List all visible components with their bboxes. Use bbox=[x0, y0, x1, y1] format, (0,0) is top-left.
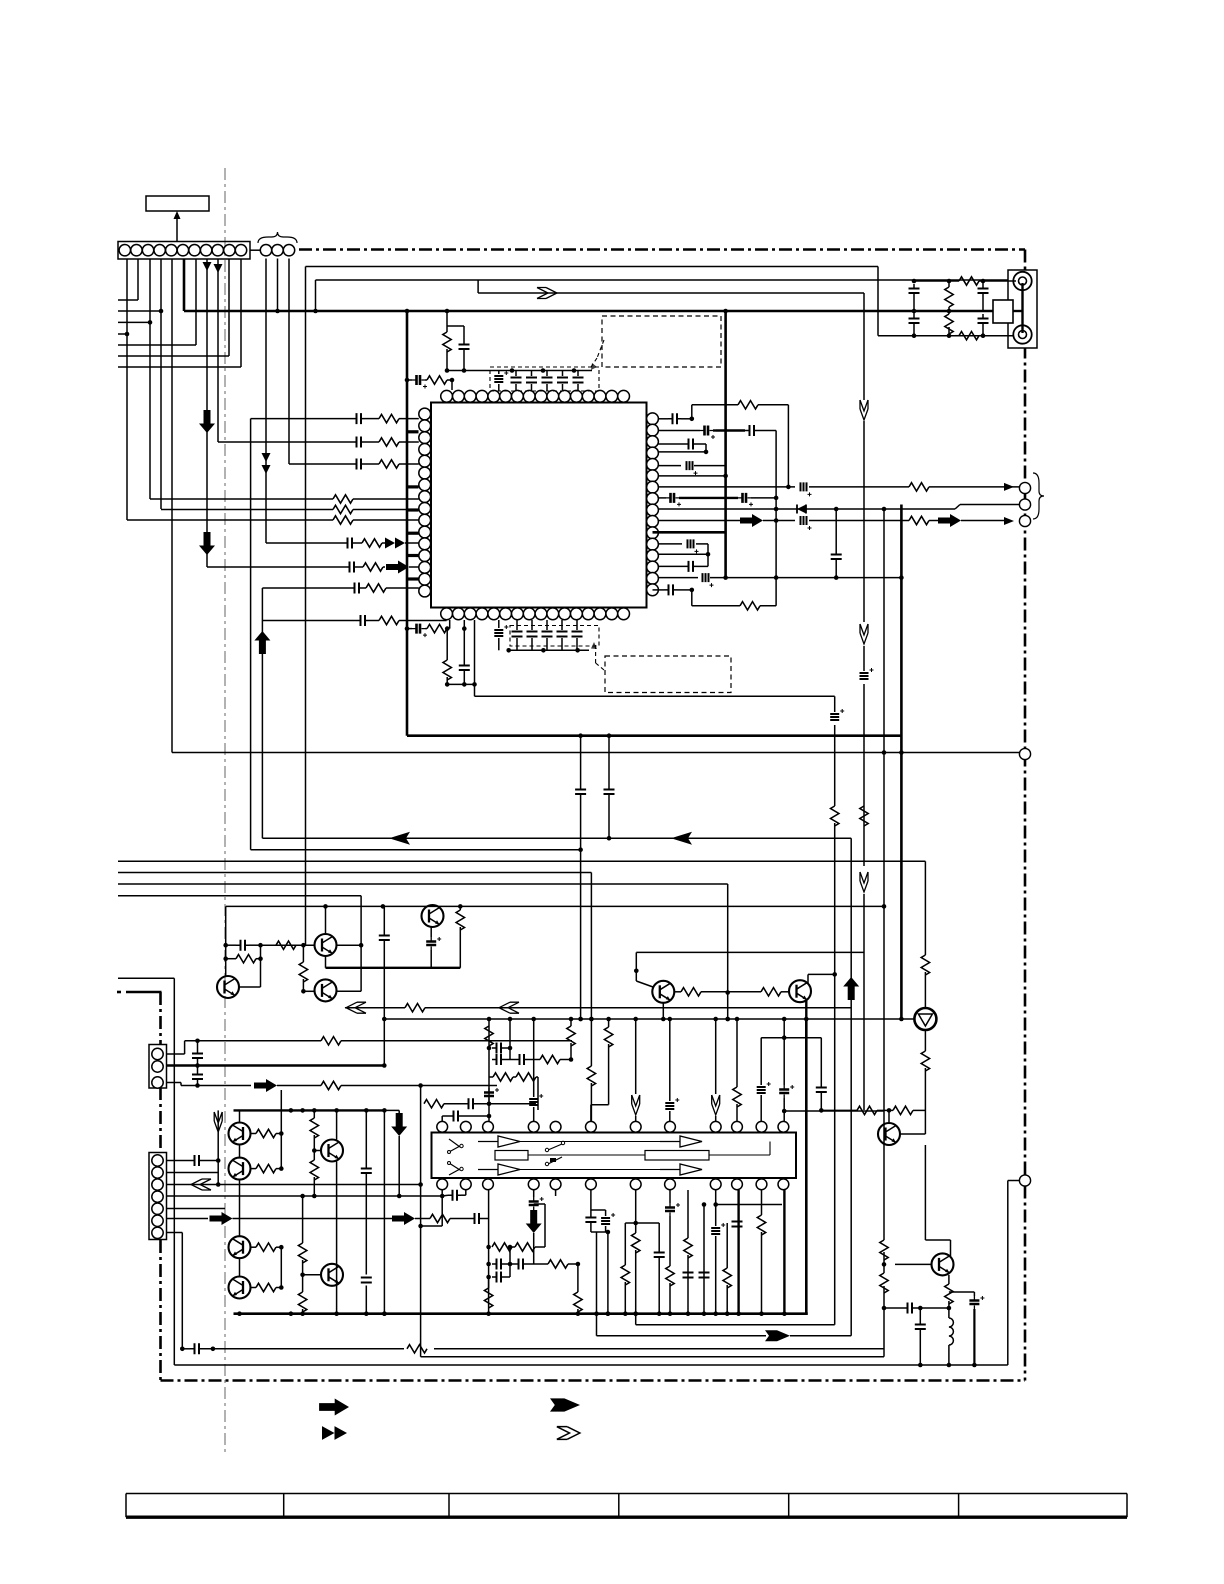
wire y293 with chevron bbox=[478, 280, 864, 299]
resistor R242 bbox=[489, 1073, 516, 1081]
transistor Q210 bbox=[229, 1123, 251, 1145]
resistor R252 bbox=[548, 1260, 580, 1268]
CN201 pin1 wire bbox=[167, 1039, 573, 1055]
wire x607 down bbox=[606, 1232, 611, 1316]
CN201 pin2 thick wire y1065 bbox=[167, 1063, 387, 1068]
wire left edge stub y978 bbox=[118, 977, 174, 979]
frame border bottom dash-dot bbox=[161, 1379, 1026, 1382]
resistor R132 bbox=[379, 460, 419, 468]
wire x590 caps C253 C254 bbox=[585, 1190, 610, 1234]
resistor R203 bbox=[955, 280, 959, 282]
transistor Q202 bbox=[315, 906, 337, 956]
wire into jack row1 bbox=[1014, 280, 1017, 282]
capacitor C258 x737 bbox=[732, 1222, 743, 1227]
twin small down arrows bbox=[262, 453, 271, 474]
junction dots rc filter bbox=[912, 279, 917, 284]
dashed outline deco caps bottom bbox=[510, 626, 599, 647]
row to left pin10 resistor R135 bbox=[127, 516, 419, 524]
row to left pin16 bbox=[262, 587, 350, 589]
capacitor C231 on x366 bbox=[361, 1278, 372, 1283]
electrolytic C272 bbox=[949, 1292, 985, 1365]
chevron down arrow b bbox=[860, 624, 868, 644]
capacitor C124 bbox=[531, 620, 533, 630]
wire y952 bbox=[636, 951, 864, 953]
thick analog bus vertical x725 bbox=[724, 311, 727, 578]
resistor R130 bbox=[379, 414, 419, 422]
wire rail bbox=[447, 683, 474, 685]
capacitor C212 vertical bbox=[379, 906, 390, 1065]
IC2 pin x442 bottom wire bbox=[418, 1190, 442, 1228]
network vertical x821 capacitor C213 bbox=[816, 1038, 827, 1110]
footer table bbox=[126, 1494, 1127, 1518]
border pin circle row2 bbox=[1019, 499, 1030, 510]
network vertical x784 electrolytic C244 bbox=[779, 1038, 884, 1122]
wire x761 resistor R261 bbox=[757, 1190, 765, 1314]
wire x361 bbox=[337, 896, 364, 992]
resistor R251 bbox=[512, 1204, 545, 1251]
capacitor C117 bbox=[577, 371, 579, 377]
hatched cap Z140 bbox=[801, 482, 812, 496]
right row pin16 capacitor C148 bbox=[653, 584, 695, 595]
wire pin3 to wrap line bbox=[475, 620, 835, 696]
wire y1357 bbox=[421, 1356, 884, 1358]
wire y1110 bbox=[819, 1108, 925, 1113]
border pin circle y752 bbox=[1019, 748, 1030, 759]
border pin circle row1 bbox=[1019, 482, 1030, 493]
IC101 left pins bbox=[419, 408, 431, 597]
vertical x580 with capacitor C150 bbox=[575, 736, 586, 1022]
thick wire x784 bbox=[783, 1190, 785, 1314]
right row pin9 wire to mid line bbox=[658, 505, 1019, 512]
decoupling caps above IC101 bbox=[494, 371, 583, 392]
gray section divider dash-dot line bbox=[224, 168, 226, 1455]
capacitor C230 bbox=[361, 1110, 372, 1313]
IC201 internal resistor boxes bbox=[495, 1151, 709, 1161]
right row pin13 wire bbox=[658, 552, 710, 557]
legend sharp arrow bbox=[550, 1398, 580, 1411]
resistor R254 vertical bbox=[574, 1264, 582, 1314]
resistor R137 bbox=[363, 563, 385, 571]
capacitor C220 bbox=[192, 1041, 203, 1068]
wire x884 vertical bbox=[882, 509, 887, 1357]
wire stubs at left page edge bbox=[118, 300, 241, 367]
capacitor C116 bbox=[562, 371, 564, 377]
right row pin15 hatched Z143 bbox=[658, 573, 901, 587]
wire to transistor Q202 bbox=[261, 944, 315, 946]
wire y1365 long bbox=[174, 1363, 1008, 1368]
transistor Q205 bbox=[652, 981, 674, 1022]
row y1104 resistor R247 bbox=[424, 1100, 464, 1108]
resistor R270 below Q220 bbox=[945, 1275, 953, 1318]
wire x737 resistor R246 bbox=[733, 1019, 741, 1121]
Q206 emitter thick stub bbox=[805, 1000, 807, 1019]
resistor R214 vertical bbox=[456, 906, 464, 967]
wire x727 resistor R260 bbox=[726, 1190, 728, 1267]
legend open chevron bbox=[557, 1427, 580, 1440]
resistor R120 bbox=[425, 628, 427, 630]
dashed box label IC101 bottom bbox=[605, 656, 731, 693]
resistor R243 bbox=[516, 1073, 538, 1110]
resistor R215 on y1007 bbox=[405, 1004, 425, 1012]
resistor R223 bbox=[430, 1214, 470, 1222]
capacitor C251 bbox=[510, 1259, 548, 1270]
resistor R220 bbox=[893, 1106, 913, 1114]
capacitor C112 hatched bbox=[498, 371, 500, 375]
vertical wires from 3-pin group bbox=[266, 259, 289, 544]
row to left pin3 bbox=[218, 441, 352, 443]
CN201 pin3 wire with block arrow bbox=[167, 1079, 322, 1092]
right row pin14 capacitor C147 bbox=[658, 554, 708, 572]
inductor L201 bbox=[949, 1318, 954, 1365]
capacitor C122 hatched bbox=[498, 620, 500, 628]
hatched cap Z141 bbox=[801, 516, 812, 530]
brace right of border pins bbox=[1033, 473, 1044, 519]
junction dots on thick bus bbox=[275, 309, 728, 314]
small arrowheads under connector bbox=[203, 262, 223, 273]
resistor R136 bbox=[362, 539, 385, 547]
jack shield link bbox=[993, 283, 1023, 333]
base network capacitor C210 bbox=[223, 940, 262, 951]
wire quad spine bbox=[234, 1110, 240, 1276]
wire x925 chain bbox=[921, 861, 929, 1008]
right row pin4 wire bbox=[658, 450, 708, 455]
resistor R138 bbox=[366, 584, 419, 592]
capacitor C247 bbox=[442, 1190, 466, 1201]
resistor R233 bbox=[251, 1283, 284, 1291]
dashed leader to caps bbox=[591, 340, 604, 370]
right rows wires bbox=[658, 466, 727, 479]
resistor R250 bbox=[492, 1243, 512, 1251]
resistor R232 bbox=[251, 1243, 284, 1251]
junction dots on supply bus bbox=[405, 378, 612, 738]
CN202 pin5 wire bbox=[167, 1208, 226, 1210]
IC101 right pins bbox=[647, 413, 659, 596]
RC filter at jack bbox=[878, 277, 1014, 340]
capacitor C241 bbox=[492, 1043, 512, 1054]
CN202 pin1 capacitor C222 bbox=[167, 1155, 221, 1166]
capacitor C125 bbox=[546, 620, 548, 630]
wire x595 down bbox=[596, 1232, 598, 1336]
right row pin2 electrolytic C141 bbox=[658, 426, 745, 440]
IC201 internal opamp A bbox=[478, 1136, 520, 1147]
legend block arrow bbox=[319, 1399, 349, 1416]
capacitor C271 vertical bbox=[915, 1308, 926, 1365]
resistor R213 bbox=[261, 941, 297, 949]
border pin circle y1180 bbox=[1019, 1175, 1030, 1186]
capacitor C243 bbox=[510, 1054, 540, 1065]
transistor Q206 bbox=[789, 980, 811, 1002]
dashed leader bottom bbox=[591, 642, 604, 670]
arrow from connector to label box bbox=[174, 211, 181, 241]
capacitor C127 bbox=[576, 620, 578, 630]
resistor R212 vertical bbox=[299, 943, 314, 994]
resistor R253 vertical bbox=[484, 1277, 492, 1308]
wire x591 down to IC2 bbox=[587, 873, 595, 1123]
capacitor C201 bbox=[909, 284, 920, 297]
row to left pin5 bbox=[289, 463, 352, 465]
transistor Q213 bbox=[229, 1277, 251, 1299]
resistor R152 bbox=[880, 1240, 888, 1260]
transistor Q211 bbox=[229, 1158, 251, 1180]
big arrow mid bbox=[938, 514, 1004, 527]
wire x715 chain bbox=[711, 1190, 782, 1314]
resistor R211 bbox=[260, 958, 262, 960]
resistor R219 bbox=[857, 1106, 877, 1114]
Q220 collector wire up bbox=[925, 1145, 950, 1256]
cluster under CN pins x488 bbox=[486, 1190, 491, 1314]
arrowhead into border pin row3 bbox=[1004, 517, 1014, 525]
resistor R141 bbox=[909, 483, 929, 491]
thick supply bus left/bottom of IC101 bbox=[407, 311, 901, 736]
IC101 bottom pins bbox=[441, 608, 630, 620]
wire x420 long vertical bbox=[418, 1083, 423, 1357]
connector group of 3 pins bbox=[250, 245, 295, 256]
jack connector box bbox=[1008, 270, 1037, 348]
capacitor C115 bbox=[546, 371, 548, 377]
capacitor C123 bbox=[516, 620, 518, 630]
electrolytic C252 x533 with down arrow bbox=[526, 1190, 544, 1264]
decoupling caps below IC101 bbox=[494, 620, 589, 653]
row to left pin9 resistor R134 bbox=[161, 505, 419, 513]
thick wire x806 down bbox=[805, 1019, 808, 1314]
transistor Q220 bbox=[895, 1253, 954, 1275]
capacitor C131 bbox=[352, 437, 379, 448]
capacitor C110 electrolytic bbox=[407, 379, 412, 381]
wire x281 links bbox=[280, 1090, 282, 1288]
base network resistor R210 bbox=[223, 955, 262, 963]
wire x510 link bbox=[509, 1247, 511, 1277]
capacitor C204 bbox=[978, 314, 989, 327]
capacitor C134 bbox=[345, 562, 363, 573]
resistor R121 bbox=[446, 629, 448, 660]
thick bus from connector pin bbox=[184, 259, 1013, 312]
IC201 bottom pins bbox=[437, 1179, 789, 1190]
thick ground bus y1314 bbox=[234, 1311, 808, 1316]
frame border left dash-dot bbox=[117, 992, 162, 1381]
capacitor C126 bbox=[561, 620, 563, 630]
long wire y838 with left arrows bbox=[262, 832, 851, 845]
capacitor C132 bbox=[352, 459, 379, 470]
wire x625 resistor R255 bbox=[624, 1189, 626, 1191]
CN202 pin4 wire bbox=[167, 1194, 445, 1199]
block arrow into pin14 bbox=[386, 561, 419, 574]
frame border top dash-dot bbox=[299, 248, 1025, 251]
jack terminal bottom bbox=[1013, 325, 1031, 343]
wire x715 chevron down bbox=[712, 1019, 720, 1121]
electrolytic C259 x715 bbox=[715, 1313, 717, 1315]
resistor network block top rail bbox=[761, 1019, 821, 1040]
right row pin1 capacitor C140 bbox=[658, 413, 694, 424]
resistor R218 below B201 bbox=[921, 1030, 929, 1134]
wire x608 resistor R245 bbox=[591, 1019, 613, 1121]
right row pin10 arrow row bbox=[658, 514, 795, 527]
arrowhead into border pin bbox=[1004, 483, 1014, 491]
dashed outline deco caps top bbox=[490, 367, 599, 391]
capacitor C223 bbox=[470, 1213, 489, 1224]
junction dots y752 bbox=[882, 750, 887, 755]
IC101 top pins bbox=[441, 390, 630, 402]
loop resistor R140 bbox=[692, 401, 791, 490]
row to left pin12 bbox=[266, 542, 343, 544]
brace over 3-pin group bbox=[258, 232, 297, 243]
capacitor C121 bbox=[463, 629, 465, 661]
mid transistors column resistors R234 R235 bbox=[310, 1110, 318, 1196]
row y1104 capacitor C245 bbox=[464, 1098, 536, 1109]
big down arrow 1 bbox=[199, 410, 215, 433]
wire x384 bbox=[382, 1110, 387, 1316]
wire x669 hatched Z241 bbox=[665, 1019, 679, 1121]
CN202 pin6 arrow row bbox=[167, 1212, 431, 1225]
right row pin12 hatched Z142 bbox=[658, 539, 708, 554]
wire x635 chevron down bbox=[632, 1019, 640, 1121]
up arrow on wire x262 bbox=[254, 588, 270, 838]
wire x489 bbox=[487, 1019, 492, 1121]
wire x260 down to Q201 bbox=[239, 945, 261, 987]
resistor R216 bbox=[675, 988, 728, 996]
capacitor C255 x659 bbox=[636, 1223, 665, 1314]
wire x510 bbox=[509, 1019, 511, 1060]
resistor R217 bbox=[728, 988, 789, 996]
resistor R262 on y1348 bbox=[407, 1345, 427, 1353]
row to left pin8 resistor R133 bbox=[150, 495, 419, 503]
supply branch below IC101 bbox=[407, 620, 477, 687]
right row pin7 wire bbox=[658, 486, 1019, 488]
wire x305 from top loop bbox=[304, 498, 306, 500]
IC101 ground stub ticks left bbox=[408, 432, 419, 579]
connector CN202 box bbox=[149, 1153, 167, 1240]
diode pair D140 bbox=[797, 505, 806, 514]
wire x1007 up to border pin bbox=[1008, 1181, 1020, 1366]
resistor R230 bbox=[251, 1129, 284, 1137]
wire x836 vertical bbox=[832, 696, 837, 1324]
vertical wires from connector pins bbox=[127, 259, 241, 753]
wire x670 resistor R258 bbox=[665, 1190, 680, 1314]
caps C256 C257 x688 x704 bbox=[687, 1189, 689, 1191]
resistor R221 on y1041 bbox=[321, 1037, 341, 1045]
capacitor C111 bbox=[463, 326, 465, 340]
resistor R153 bbox=[880, 1273, 888, 1293]
right row pin5 hatched C144 bbox=[658, 461, 697, 475]
row to left pin14 bbox=[207, 566, 345, 568]
capacitor C149 vertical bbox=[831, 509, 842, 578]
IC IC101 body bbox=[431, 403, 647, 608]
resistor R110 bbox=[425, 379, 427, 381]
row below-left to bottom pin: capacitor C136 bbox=[262, 615, 379, 626]
supply branch above IC101 bbox=[407, 311, 470, 390]
capacitor C114 bbox=[531, 371, 533, 377]
capacitor C202 bbox=[909, 314, 920, 327]
jack terminal top bbox=[1013, 272, 1031, 290]
transistor Q215 bbox=[303, 1264, 343, 1286]
IC IC201 body bbox=[432, 1133, 797, 1179]
wire Q202 emitter to thick rail bbox=[326, 956, 461, 968]
transistor Q212 bbox=[229, 1236, 251, 1258]
wire x864 long vertical bbox=[863, 293, 865, 1110]
CN202 pin3 wire with chevron bbox=[167, 1179, 423, 1190]
wire y906 bbox=[226, 904, 887, 909]
border pin circle row3 bbox=[1019, 515, 1030, 526]
IC201 internal opamp C bbox=[660, 1136, 702, 1147]
electrolytic C240 bbox=[484, 1088, 499, 1101]
thick wire x738 bbox=[723, 1190, 739, 1314]
resistor R240 bbox=[485, 1026, 493, 1046]
hatched Z250 bbox=[591, 1210, 615, 1232]
rail below bbox=[509, 649, 589, 651]
wire x636 bbox=[634, 952, 653, 987]
wire x571 resistor R244 bbox=[567, 1019, 575, 1060]
bus wire y861 bbox=[118, 860, 925, 862]
capacitor C120 electrolytic bbox=[407, 628, 412, 630]
transistor Q204 bbox=[422, 905, 444, 927]
capacitor C135 bbox=[350, 583, 366, 594]
electrolytic C211 below Q204 bbox=[426, 927, 441, 968]
wire loop y280 bbox=[316, 280, 1017, 311]
transistor Q201 bbox=[217, 906, 239, 998]
network vertical x761 hatched Z202 bbox=[757, 1038, 771, 1122]
thick wire x901 vertical bbox=[899, 505, 904, 1020]
wire x851 vertical with up arrow bbox=[843, 838, 859, 1336]
decoupling rail above IC101 bbox=[445, 368, 592, 373]
wire y850 bbox=[251, 849, 581, 851]
IC201 internal opamp B bbox=[478, 1164, 520, 1175]
wire x174 long vertical bbox=[173, 978, 175, 1365]
chevron down arrow c bbox=[860, 872, 868, 892]
capacitor C113 bbox=[515, 371, 517, 377]
connector CN101 strip bbox=[118, 242, 250, 260]
resistor R151 bbox=[831, 806, 839, 826]
IC201 internal opamp D bbox=[660, 1164, 702, 1175]
right row pin3 capacitor C143 bbox=[658, 439, 706, 452]
caps x688 x704 vertical bbox=[683, 1190, 694, 1314]
transistor Q207 bbox=[878, 1110, 925, 1145]
wire x250 corner into y850 (already) junction bbox=[250, 849, 252, 851]
wire x555 pin stub bbox=[555, 1190, 557, 1196]
Q206 collector wire bbox=[808, 974, 835, 983]
capacitor C242 bbox=[492, 1054, 510, 1065]
hatched cap Z151 bbox=[830, 709, 844, 720]
vertical x609 with capacitor C151 bbox=[604, 736, 615, 841]
triangle buffer B201 bbox=[914, 1008, 936, 1030]
wire x533 with hatched Z240 bbox=[529, 1019, 543, 1121]
bus wire y872 bbox=[118, 872, 591, 874]
hatched cap Z150 bbox=[860, 668, 874, 679]
double triangle arrow into pin12 bbox=[385, 538, 419, 549]
wire y1007 with chevrons bbox=[345, 1002, 851, 1013]
resistor R131 bbox=[379, 438, 419, 446]
wire x704 bbox=[699, 1202, 710, 1314]
wire x686 resistor R259 bbox=[685, 1230, 687, 1232]
big down arrow 2 bbox=[199, 532, 215, 555]
resistor R231 bbox=[251, 1164, 284, 1172]
wires rc filter bbox=[878, 335, 1014, 337]
bottom loop resistor R143 bbox=[692, 578, 776, 610]
legend double triangle bbox=[322, 1426, 347, 1440]
IC201 internal switches bbox=[448, 1139, 565, 1175]
row to left pin1: wire x250 bbox=[251, 419, 352, 850]
label box bbox=[146, 196, 209, 211]
thick row pin11 bbox=[653, 531, 726, 534]
wire y1335 with sharp arrow bbox=[597, 1330, 852, 1341]
capacitor C133 bbox=[343, 538, 362, 549]
capacitor C221 bbox=[192, 1066, 203, 1088]
connector CN201 box bbox=[149, 1045, 167, 1089]
capacitor C142 bbox=[745, 425, 776, 578]
resistors R236 R237 lower bbox=[298, 1197, 306, 1314]
right row pin8: electrolytic C146 thick link bbox=[658, 493, 778, 507]
capacitor C270 bbox=[884, 1303, 951, 1314]
frame border right dash-dot bbox=[1024, 250, 1027, 1381]
resistor R204 bbox=[955, 335, 959, 337]
